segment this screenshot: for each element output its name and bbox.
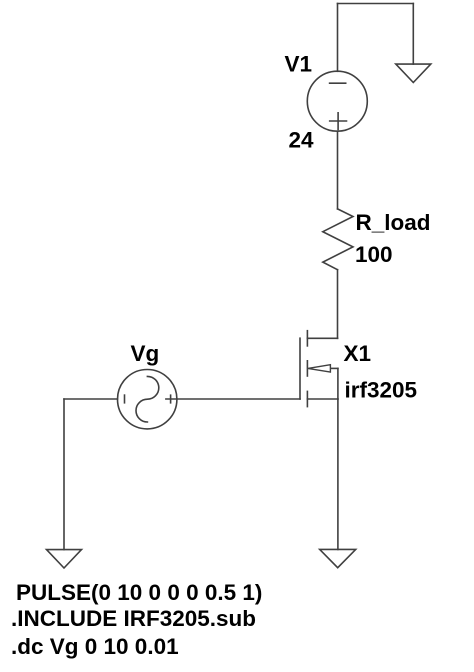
wire V1 top bbox=[337, 4, 339, 72]
transistor X1 channel segment middle bbox=[306, 361, 308, 376]
svg-text:24: 24 bbox=[289, 128, 315, 153]
voltage source V1 circle bbox=[307, 71, 367, 131]
V1 plus sign bbox=[330, 113, 347, 130]
ground middle bbox=[320, 549, 356, 567]
svg-text:Vg: Vg bbox=[131, 341, 160, 366]
svg-text:X1: X1 bbox=[344, 341, 372, 366]
Vg minus bar bbox=[124, 395, 126, 403]
wire V1 to resistor bbox=[337, 131, 339, 209]
wire right vertical to ground bbox=[412, 4, 414, 65]
wire top horizontal bbox=[338, 3, 414, 5]
resistor R_load zigzag bbox=[323, 209, 353, 270]
wire gate from Vg bbox=[177, 398, 300, 400]
wire left down to ground bbox=[63, 399, 65, 550]
Vg sine curve bbox=[136, 376, 159, 422]
transistor X1 gate bar bbox=[299, 338, 301, 399]
svg-text:.INCLUDE IRF3205.sub: .INCLUDE IRF3205.sub bbox=[11, 606, 256, 631]
V1 minus sign bbox=[330, 82, 346, 84]
svg-text:100: 100 bbox=[355, 242, 393, 267]
transistor X1 body-source vertical bbox=[337, 368, 339, 399]
svg-text:PULSE(0 10 0 0 0 0.5 1): PULSE(0 10 0 0 0 0.5 1) bbox=[16, 580, 262, 605]
svg-text:irf3205: irf3205 bbox=[345, 378, 418, 403]
Vg plus sign bbox=[166, 395, 175, 403]
transistor X1 body line bbox=[330, 367, 338, 369]
voltage source Vg circle bbox=[118, 370, 177, 429]
transistor X1 drain line bbox=[307, 337, 337, 339]
transistor X1 channel segment bottom bbox=[306, 391, 308, 406]
transistor X1 source line bbox=[307, 398, 338, 400]
wire resistor to drain bbox=[337, 270, 339, 339]
svg-text:.dc Vg 0 10 0.01: .dc Vg 0 10 0.01 bbox=[11, 634, 179, 659]
wire Vg left bbox=[64, 398, 118, 400]
svg-text:V1: V1 bbox=[285, 52, 313, 77]
transistor X1 channel segment top bbox=[306, 331, 308, 346]
ground top right bbox=[396, 64, 431, 82]
ground left bbox=[47, 550, 82, 568]
transistor X1 body arrow bbox=[308, 365, 331, 372]
wire source down bbox=[337, 399, 339, 549]
svg-text:R_load: R_load bbox=[356, 210, 431, 235]
